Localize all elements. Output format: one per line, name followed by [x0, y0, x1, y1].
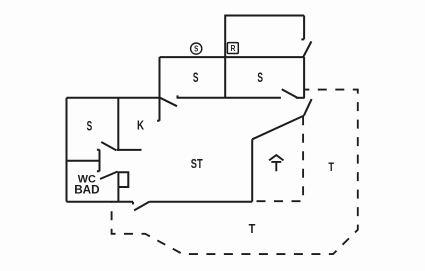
svg-text:R: R [230, 43, 235, 53]
wire: S room door leaf [101, 142, 116, 150]
wire: jamb stub x=99.5 with ticks [97, 150, 100, 171]
svg-text:ST: ST [191, 157, 203, 171]
wire: WC top wall [67, 160, 100, 162]
svg-text:T: T [249, 221, 256, 236]
wire: right S room door leaf [282, 89, 298, 98]
wire: annex door leaf [303, 41, 311, 57]
wire: top annex top and left wall [225, 16, 304, 98]
wire: wall x=159 down to 120.7 [157, 57, 159, 121]
wire: slanted wall [252, 116, 304, 140]
node entrance arrow [269, 155, 283, 171]
wire: top annex right wall with end tick [301, 16, 304, 40]
node R sensor box [227, 43, 238, 54]
svg-text:K: K [137, 119, 145, 133]
wire: right S room right wall [303, 57, 305, 98]
wire: bottom wall right segment [150, 201, 253, 203]
wire: K bottom wall [117, 149, 142, 151]
wire: ST right wall [251, 139, 253, 201]
wire: jamb tick at 177.5 [177, 95, 179, 98]
wire: S/K separator wall [117, 98, 119, 150]
node S sensor circle [191, 43, 202, 54]
wire: terrace door leaf [134, 202, 150, 211]
svg-text:T: T [328, 161, 334, 175]
wire: WC door leaf [100, 172, 118, 180]
wire: ST east door leaf [304, 99, 312, 116]
wire: S-rooms top wall [160, 56, 305, 58]
wire: dashed covered terrace edge [252, 116, 303, 201]
wire: wall stub right of door [296, 97, 305, 99]
svg-text:S: S [257, 71, 263, 85]
wire: bottom wall left segment with end tick [67, 202, 134, 205]
wire: dashed terrace outline [112, 90, 358, 255]
svg-text:S: S [194, 44, 198, 54]
svg-text:BAD: BAD [74, 183, 99, 196]
svg-text:S: S [193, 71, 199, 85]
wire: left outer wall [66, 98, 68, 202]
wire: ST door leaf [160, 98, 177, 107]
wire: bathroom fixture [118, 172, 128, 187]
svg-text:S: S [87, 120, 93, 134]
wire: wall y=97.7 left segment [67, 97, 160, 99]
wire: wall y=97.7 middle segment [178, 97, 281, 99]
wire: WC right wall [117, 172, 119, 202]
